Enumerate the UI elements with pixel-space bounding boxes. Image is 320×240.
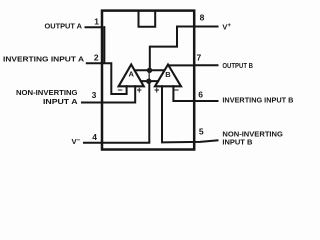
svg-text:3: 3 [92, 90, 97, 100]
svg-text:−: − [117, 85, 122, 95]
svg-text:B: B [165, 70, 171, 79]
svg-text:7: 7 [197, 52, 202, 62]
svg-text:OUTPUT B: OUTPUT B [222, 61, 253, 70]
svg-text:INVERTING INPUT A: INVERTING INPUT A [3, 55, 84, 64]
svg-text:A: A [128, 69, 134, 78]
svg-text:OUTPUT A: OUTPUT A [45, 22, 83, 31]
svg-text:INPUT A: INPUT A [43, 97, 78, 106]
svg-text:4: 4 [92, 132, 97, 142]
svg-text:8: 8 [200, 12, 205, 22]
svg-text:+: + [137, 85, 142, 95]
svg-text:+: + [154, 85, 159, 95]
svg-text:6: 6 [198, 89, 203, 99]
svg-text:1: 1 [94, 17, 99, 27]
svg-text:−: − [174, 85, 179, 95]
svg-text:INPUT B: INPUT B [222, 137, 252, 146]
svg-text:INVERTING INPUT B: INVERTING INPUT B [222, 96, 293, 105]
svg-text:NON-INVERTING: NON-INVERTING [16, 88, 78, 97]
svg-text:2: 2 [94, 52, 99, 62]
svg-text:5: 5 [199, 127, 204, 137]
